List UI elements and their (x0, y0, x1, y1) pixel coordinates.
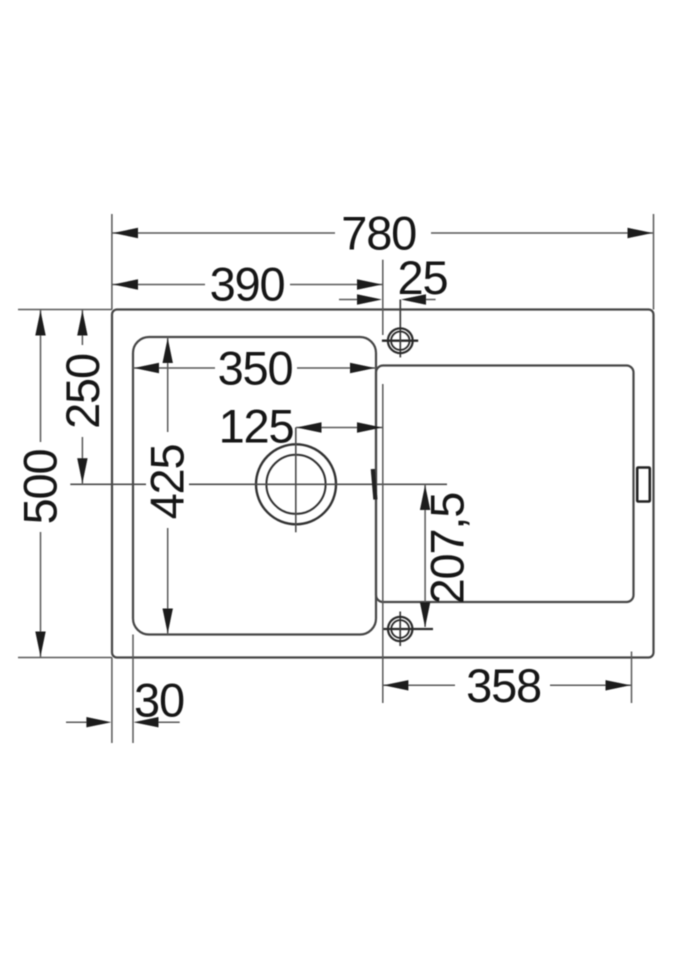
dim 500 line (40, 310, 42, 443)
faucet hole outer circle (388, 328, 413, 353)
dim 207,5 arrows (420, 485, 430, 510)
dim 390 arrows (113, 279, 138, 289)
svg-text:390: 390 (210, 258, 285, 311)
svg-text:207,5: 207,5 (421, 493, 474, 605)
outer sink rim rectangle (112, 310, 654, 658)
svg-text:350: 350 (218, 342, 293, 395)
dim 350 arrows (134, 363, 159, 373)
dim 250 arrows (77, 311, 87, 336)
extension line mid (390/25 at x=383) (382, 260, 384, 335)
svg-text:500: 500 (14, 450, 67, 525)
dim 358 line (382, 684, 455, 686)
faucet hole inner circle (391, 332, 409, 350)
svg-text:30: 30 (134, 674, 184, 727)
svg-text:125: 125 (219, 400, 294, 453)
drain vertical centerline (295, 428, 297, 533)
svg-text:25: 25 (398, 251, 448, 304)
dim 30 left line and arrow (66, 721, 87, 723)
dim 425 line (167, 337, 169, 432)
svg-text:250: 250 (56, 354, 109, 429)
dim 125 arrows (297, 422, 322, 432)
rear hole cross horizontal (383, 628, 433, 630)
dim 500 arrows (35, 311, 45, 336)
dim 780 arrows (113, 228, 138, 238)
dim 350 line (133, 367, 215, 369)
faucet hole cross horizontal (382, 340, 418, 342)
extension line bottom bowl edge (30) (132, 635, 134, 744)
dim 25 line right part with left-pointing arrow (425, 299, 436, 301)
rear hole outer circle (388, 617, 412, 641)
dim 780 line (112, 232, 335, 234)
horizontal centerline left piece (70, 483, 146, 485)
rear hole inner circle (391, 620, 409, 638)
drainboard rounded rectangle (376, 366, 634, 603)
extension line mid lower (125/358 at x=383) (382, 384, 384, 703)
drain inner circle (266, 455, 325, 514)
extension line bottom left outer (30) (111, 658, 113, 744)
extension line right top (780) (653, 214, 655, 310)
extension line left top (780/390) (111, 214, 113, 310)
dim 125 line (296, 427, 383, 429)
rear hole cross vertical (399, 612, 401, 647)
dim 358 arrows (383, 680, 408, 690)
svg-text:425: 425 (141, 445, 194, 520)
extension bottom edge to left (500) (18, 657, 112, 659)
extension top edge to left (500/250) (18, 309, 112, 311)
faucet hole cross vertical / leader from 25 dim (399, 300, 401, 358)
dim 390 line (112, 284, 205, 286)
dim 207,5 line (424, 484, 426, 627)
oblique tick at bowl edge on centerline (373, 469, 376, 500)
dim 425 arrows (163, 338, 173, 363)
dim 250 line (81, 310, 83, 346)
horizontal centerline right piece (189, 483, 447, 485)
dim 30 right line and arrow (158, 721, 180, 723)
drain outer circle (256, 444, 336, 524)
extension line right bottom (358) (631, 652, 633, 704)
main bowl rounded rectangle (133, 337, 376, 635)
overflow slot rectangle (637, 468, 650, 502)
dim 25 line left part with right-pointing arrow (339, 299, 358, 301)
svg-text:358: 358 (466, 659, 541, 712)
